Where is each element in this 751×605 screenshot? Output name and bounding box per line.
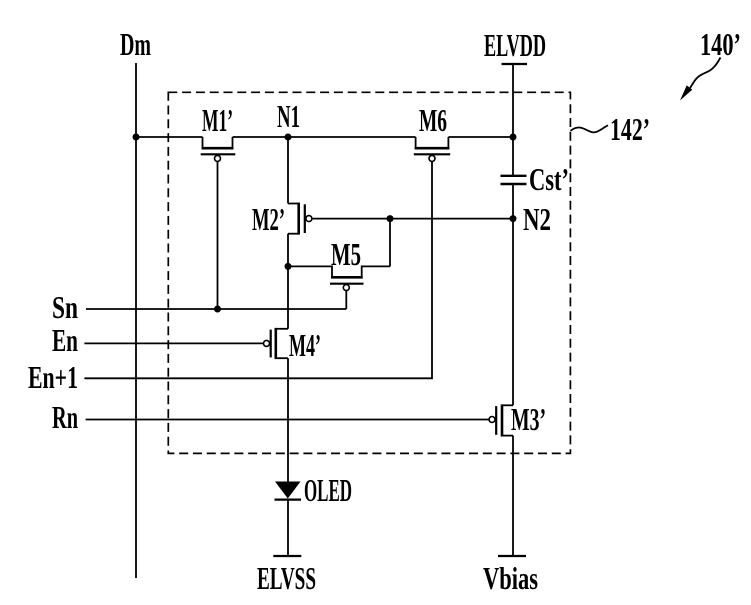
wire Dm data line (vertical) (135, 63, 137, 578)
node junction dot N1 x M5 row (285, 263, 292, 270)
wire OLED to ELVSS (287, 500, 289, 556)
transistor M1' (201, 137, 236, 161)
node dot N2 (510, 215, 517, 222)
svg-text:Dm: Dm (120, 26, 151, 62)
svg-text:OLED: OLED (304, 472, 352, 508)
dashed pixel-circuit box 142' (168, 92, 570, 453)
leader arrow for 140' (680, 58, 721, 101)
transistor M4' (264, 328, 289, 359)
svg-text:M1’: M1’ (202, 102, 233, 138)
wire cap to N2 (512, 184, 514, 219)
transistor M3' (489, 404, 513, 436)
wire M5 gate stem down then left to Sn corner (345, 291, 347, 309)
svg-text:Rn: Rn (52, 399, 78, 435)
svg-text:En: En (52, 322, 78, 358)
node junction dot M1' gate x Sn (214, 306, 221, 313)
svg-text:ELVDD: ELVDD (484, 27, 546, 63)
svg-text:N1: N1 (277, 98, 300, 134)
svg-text:Cst’: Cst’ (529, 161, 569, 197)
wire N1 column (M5 row to M4') (287, 266, 289, 328)
svg-text:M3’: M3’ (511, 401, 546, 437)
svg-text:Vbias: Vbias (483, 560, 538, 596)
svg-text:N2: N2 (523, 201, 551, 237)
terminal Vbias bar (498, 555, 526, 557)
svg-text:M4’: M4’ (289, 327, 321, 363)
terminal ELVSS bar (273, 555, 301, 557)
wire top row: M6 to ELVDD column (448, 136, 513, 138)
wire ELVDD column N2 to M3' (512, 219, 514, 406)
transistor M6 (414, 137, 450, 161)
wire N1 column upper (top wire to M2') (287, 137, 289, 204)
transistor M5 (inline jog) (288, 266, 390, 290)
svg-text:M2’: M2’ (252, 201, 285, 237)
node dot N1 (285, 134, 292, 141)
diode OLED (275, 482, 302, 500)
svg-text:140’: 140’ (700, 26, 741, 62)
wire N1 column (M2' to M5 row) (287, 234, 289, 267)
wire En row (84, 342, 263, 344)
svg-text:Sn: Sn (52, 289, 78, 325)
wire Sn row (86, 308, 346, 310)
svg-text:M6: M6 (419, 102, 447, 138)
wire N1 column (M4' down to OLED) (287, 358, 289, 481)
wire Rn row (86, 419, 489, 421)
svg-text:142’: 142’ (610, 111, 650, 147)
wire M1' gate stem down to Sn (217, 161, 219, 309)
terminal ELVDD bar (502, 63, 528, 65)
wire En+1 row with riser to M6 gate (84, 161, 432, 378)
transistor M2' (288, 203, 312, 235)
svg-text:M5: M5 (331, 236, 361, 272)
leader squiggle to 142' (571, 125, 609, 132)
capacitor Cst' (501, 176, 527, 184)
node junction dot ELVDD x top wire (510, 134, 517, 141)
wire ELVDD column to cap (512, 64, 514, 176)
wire top row: Dm to M1' (136, 136, 203, 138)
wire M2' gate to N2 (312, 218, 513, 220)
wire top row: M1' to M6 (233, 136, 416, 138)
svg-text:En+1: En+1 (28, 359, 78, 395)
svg-text:ELVSS: ELVSS (257, 560, 316, 596)
wire M5 right riser up to gate wire (389, 219, 391, 267)
node junction dot gate wire x M5 riser (387, 215, 394, 222)
node junction dot Dm x top wire (133, 134, 140, 141)
wire M3' to Vbias (512, 436, 514, 556)
